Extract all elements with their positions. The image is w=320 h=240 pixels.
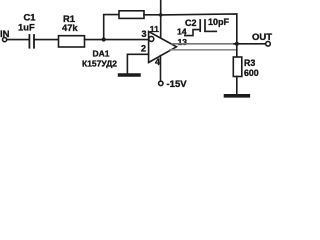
wire C2 right lead <box>205 30 216 32</box>
junction node A (R1 / feedback) <box>102 37 106 41</box>
svg-text:IN: IN <box>0 29 10 40</box>
wire R2 to +rail junction <box>144 14 161 16</box>
svg-text:13: 13 <box>178 37 188 47</box>
svg-text:47k: 47k <box>62 22 78 33</box>
ground (pin 2) <box>120 73 140 76</box>
wire pin 2 to ground <box>127 54 148 73</box>
svg-text:4: 4 <box>155 57 160 67</box>
capacitor C2 <box>200 20 205 31</box>
wire lower output stub <box>170 49 237 51</box>
svg-text:OUT: OUT <box>252 32 272 43</box>
svg-text:К157УД2: К157УД2 <box>82 58 117 68</box>
wire pin 14 to C2 <box>185 30 200 36</box>
wire riser from node A to feedback resistor <box>104 15 119 40</box>
wire pin 4 to -15V terminal <box>160 56 162 81</box>
wire C1 to R1 <box>34 39 59 41</box>
svg-text:600: 600 <box>244 68 259 78</box>
svg-text:3: 3 <box>142 29 147 39</box>
wire output to OUT terminal <box>234 43 266 45</box>
terminal IN <box>3 38 7 42</box>
svg-text:R3: R3 <box>244 58 255 68</box>
capacitor C1 <box>29 35 34 48</box>
wire output pin 13 to OUT <box>172 43 234 45</box>
resistor R1 <box>59 36 85 47</box>
svg-text:1uF: 1uF <box>18 21 35 32</box>
svg-text:DA1: DA1 <box>93 49 110 59</box>
inverting input bubble pin 3 <box>149 36 154 41</box>
junction node C (output) <box>235 42 239 46</box>
wire node C to R3 <box>236 44 238 57</box>
svg-text:-15V: -15V <box>167 79 188 90</box>
resistor R3 <box>233 57 242 77</box>
wire +supply rail to pin 11 <box>160 0 162 38</box>
wire R3 to ground <box>236 77 238 95</box>
terminal OUT <box>266 42 271 47</box>
feedback resistor R2 <box>119 11 144 19</box>
svg-text:2: 2 <box>141 44 146 54</box>
terminal -15V <box>159 81 163 85</box>
wire IN to C1 <box>7 39 29 41</box>
svg-text:C2: C2 <box>185 18 197 28</box>
junction node B (rail / feedback) <box>159 13 163 17</box>
wire node B to C2 / output corner <box>161 14 237 44</box>
ground (R3) <box>226 94 249 98</box>
op-amp DA1 triangle <box>149 32 177 63</box>
wire R1 to op-amp input pin 3 <box>85 39 149 41</box>
svg-text:10pF: 10pF <box>208 17 230 27</box>
